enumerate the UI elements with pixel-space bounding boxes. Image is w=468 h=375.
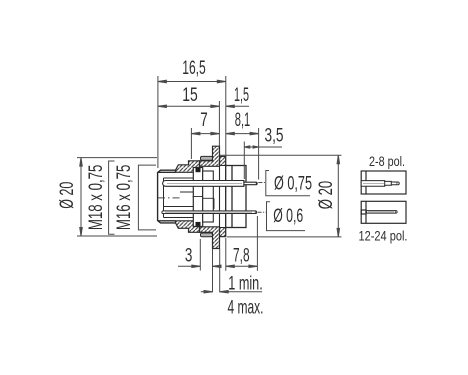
- svg-text:3: 3: [185, 246, 193, 267]
- label M18 x 0,75: [109, 161, 115, 234]
- detail pin 2-8: [361, 181, 399, 187]
- dimension 1,5: [226, 105, 249, 108]
- rear body: [226, 166, 246, 228]
- rear insulator slab: [193, 171, 214, 222]
- svg-text:15: 15: [182, 85, 198, 106]
- flange plate: [220, 156, 226, 236]
- dimension diameter 20 left: [77, 158, 157, 236]
- svg-text:12-24 pol.: 12-24 pol.: [359, 228, 408, 244]
- connector housing top hatched section: [176, 146, 220, 172]
- detail box pins 12-24: [361, 201, 406, 223]
- svg-text:Ø 20: Ø 20: [316, 181, 337, 210]
- label diameter 0,6: [258, 202, 305, 231]
- label diameter 0,75: [258, 171, 310, 196]
- dimension 16,5: [158, 76, 226, 168]
- dimension 3,5: [244, 142, 282, 180]
- svg-text:2-8 pol.: 2-8 pol.: [369, 153, 405, 169]
- lower pin (0.6 tail): [162, 211, 257, 214]
- front rim outline: [158, 170, 176, 223]
- detail box pins 2-8: [361, 171, 406, 194]
- detail pin 12-24: [367, 211, 398, 214]
- dimension diameter 20 right: [220, 155, 342, 237]
- svg-text:7,8: 7,8: [233, 246, 250, 267]
- upper pin (male contact, 0.75 tail): [163, 181, 258, 187]
- svg-text:8,1: 8,1: [235, 110, 251, 131]
- dimension 15: [158, 101, 220, 146]
- svg-text:Ø 0,6: Ø 0,6: [273, 206, 303, 227]
- connector housing bottom hatched section: [176, 221, 220, 249]
- panel thickness 1 min / 4 max: [201, 249, 262, 293]
- svg-text:Ø 20: Ø 20: [57, 182, 78, 209]
- svg-text:16,5: 16,5: [182, 58, 206, 79]
- flange hatched top part: [220, 156, 226, 165]
- dimension 3 bottom: [178, 239, 221, 271]
- label M16 x 0,75: [138, 165, 156, 230]
- svg-text:7: 7: [200, 110, 208, 131]
- svg-text:M16 x 0,75: M16 x 0,75: [114, 165, 135, 231]
- svg-text:Ø 0,75: Ø 0,75: [274, 173, 312, 194]
- svg-text:4 max.: 4 max.: [228, 298, 264, 319]
- front cavity interior lines: [164, 178, 194, 218]
- svg-text:3,5: 3,5: [265, 126, 284, 147]
- dimension 7: [191, 128, 219, 159]
- svg-text:1,5: 1,5: [234, 85, 249, 106]
- dimension 7,8 bottom: [226, 216, 258, 271]
- centerline: [158, 197, 182, 199]
- dimension 8,1: [226, 128, 259, 180]
- svg-text:1 min.: 1 min.: [228, 274, 263, 295]
- gasket top: [201, 156, 213, 160]
- flange hatched bottom part: [220, 228, 226, 237]
- gasket bottom: [201, 233, 213, 237]
- insulator slab: [193, 168, 202, 227]
- svg-text:M18 x 0,75: M18 x 0,75: [86, 165, 107, 231]
